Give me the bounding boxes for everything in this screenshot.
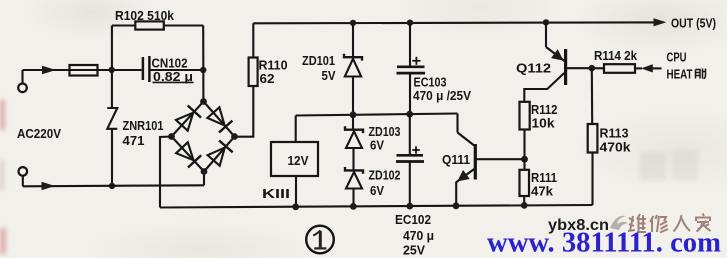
varistor ZNR101 body bbox=[107, 108, 117, 129]
svg-text:EC102: EC102 bbox=[395, 212, 431, 227]
node bridge left bbox=[168, 133, 175, 140]
svg-text:470 μ /25V: 470 μ /25V bbox=[413, 88, 471, 103]
node top rail Q112 bbox=[543, 19, 549, 25]
wire EC103 bottom lead bbox=[409, 73, 411, 114]
wire R112 to node bbox=[523, 130, 525, 160]
underline 0.82u bbox=[153, 81, 194, 83]
relay K111 12V box bbox=[271, 142, 318, 176]
wire EC102 bottom lead bbox=[409, 162, 411, 207]
node junction lower-left bbox=[109, 183, 115, 189]
svg-text:R114 2k: R114 2k bbox=[594, 48, 638, 63]
resistor R111 bbox=[520, 170, 530, 196]
resistor R114 bbox=[604, 64, 635, 73]
bridge edge top-right wire bbox=[204, 102, 235, 137]
wire upper AC line bbox=[23, 69, 142, 71]
wire CN102 right to junction bbox=[151, 69, 204, 71]
svg-text:6V: 6V bbox=[370, 138, 384, 153]
diode D-BL bbox=[176, 142, 193, 160]
capacitor EC102 plates bbox=[397, 154, 424, 157]
wire bottom rail bbox=[160, 205, 593, 208]
OUT arrow bbox=[654, 18, 667, 26]
capacitor EC103 plates bbox=[397, 65, 425, 68]
svg-text:471: 471 bbox=[123, 133, 145, 148]
transistor Q112 base wire bbox=[567, 67, 592, 69]
diode D-TL bbox=[176, 113, 193, 131]
node Q111 emitter on rail bbox=[453, 202, 460, 209]
svg-text:470k: 470k bbox=[600, 140, 632, 155]
transistor Q111 emitter diag bbox=[457, 169, 475, 182]
wire ZD102 bottom lead bbox=[352, 189, 354, 207]
svg-text:62: 62 bbox=[260, 71, 275, 86]
svg-text:AC220V: AC220V bbox=[17, 126, 61, 141]
svg-text:R113: R113 bbox=[600, 126, 629, 141]
node mid rail EC bbox=[406, 111, 413, 118]
bridge edge bottom-left wire bbox=[172, 137, 205, 172]
svg-text:Q112: Q112 bbox=[516, 61, 551, 76]
arrow CPU (points left) bbox=[641, 64, 653, 72]
transistor Q111 collector diag bbox=[458, 133, 475, 146]
fuse F bbox=[70, 65, 98, 76]
svg-text:ZNR101: ZNR101 bbox=[123, 118, 164, 133]
node relay bottom on rail bbox=[292, 203, 299, 210]
wire R102 right riser down to bridge top bbox=[202, 26, 204, 102]
wire lower AC riser to bridge bottom bbox=[203, 172, 205, 186]
wire R102 right lead bbox=[164, 24, 203, 26]
svg-text:470 μ: 470 μ bbox=[403, 228, 434, 243]
ghost bleedthrough blocks bbox=[640, 152, 666, 180]
zener ZD103 bbox=[345, 126, 363, 133]
AC terminal upper bbox=[18, 84, 27, 93]
wire R102 left lead bbox=[112, 24, 135, 26]
wire base node to R114 bbox=[592, 67, 604, 69]
svg-text:6V: 6V bbox=[370, 183, 384, 198]
wire ZD103-ZD102 bbox=[352, 148, 354, 170]
transistor Q111 base wire bbox=[477, 158, 525, 160]
svg-text:R102 510k: R102 510k bbox=[115, 8, 175, 23]
wire EC102 top lead bbox=[409, 114, 411, 155]
transistor Q111 bar bbox=[474, 144, 477, 180]
varistor ZNR101 lead top bbox=[111, 70, 113, 108]
transistor Q112 emitter diag bbox=[546, 47, 565, 61]
node bottom rail EC102 bbox=[406, 203, 413, 210]
capacitor EC103 plus bbox=[412, 60, 420, 62]
node top rail ZD101 bbox=[350, 20, 356, 26]
varistor ZNR101 lead bottom bbox=[111, 129, 113, 186]
transistor Q112 emitter arrow bbox=[551, 49, 564, 60]
circled 1 bbox=[306, 226, 334, 254]
diode D-BR bbox=[208, 148, 225, 166]
watermark weixiurenjia (drawn) bbox=[628, 214, 711, 233]
circled 1 digit bbox=[313, 230, 326, 248]
zener ZD101 bbox=[344, 54, 362, 61]
wire EC103 top lead bbox=[409, 23, 411, 67]
wire node to R111 bbox=[523, 159, 525, 170]
svg-text:OUT (5V): OUT (5V) bbox=[671, 16, 716, 31]
wire R102 loop left riser bbox=[111, 26, 113, 71]
wire lower AC line bbox=[23, 185, 204, 186]
node bridge bottom bbox=[201, 168, 208, 175]
wire Q112 emitter drop bbox=[545, 22, 547, 47]
transistor Q111 emitter arrow bbox=[457, 170, 470, 181]
arrow lower AC bbox=[42, 182, 56, 191]
svg-text:Q111: Q111 bbox=[442, 152, 470, 167]
wire terminal lower to line bbox=[22, 176, 24, 187]
wire after CPU arrow bbox=[653, 67, 662, 69]
wire R114 right bbox=[635, 67, 642, 69]
svg-text:25V: 25V bbox=[403, 243, 425, 258]
node top-rail/R110 corner bbox=[252, 23, 254, 57]
wire mid rail left riser to relay bbox=[295, 116, 297, 143]
svg-text:CPU: CPU bbox=[667, 50, 687, 65]
resistor R113 bbox=[588, 124, 598, 153]
node bridge top bbox=[200, 98, 207, 105]
wire ZD103 top lead bbox=[352, 115, 354, 130]
scan smudge left edge pink 1 bbox=[0, 100, 5, 130]
wire mid rail right corner down bbox=[456, 114, 458, 133]
wire terminal to line bbox=[21, 70, 23, 84]
svg-text:HEAT: HEAT bbox=[667, 67, 693, 82]
wire mid rail bbox=[296, 114, 458, 116]
transistor Q112 collector path bbox=[524, 73, 564, 102]
svg-text:www. 3811111. com: www. 3811111. com bbox=[487, 228, 721, 258]
svg-text:KIII: KIII bbox=[262, 186, 290, 201]
resistor R110 bbox=[249, 58, 258, 87]
bridge edge bottom-right wire bbox=[204, 137, 235, 172]
node junction upper-left bbox=[109, 67, 115, 73]
bridge edge top-left wire bbox=[172, 102, 204, 137]
zener ZD102 bbox=[345, 167, 363, 174]
node bottom rail ZD102 bbox=[350, 203, 357, 210]
resistor R102 bbox=[135, 21, 164, 29]
wire relay bottom lead bbox=[295, 176, 297, 207]
wire ZD101 top lead bbox=[352, 23, 354, 57]
top rail wire bbox=[253, 21, 655, 24]
node R112/R111/base bbox=[521, 156, 528, 163]
diode D-TR bbox=[207, 107, 224, 125]
node top rail EC103 bbox=[407, 20, 413, 26]
node R111 bottom on rail bbox=[521, 202, 528, 209]
wire bottom rail right riser to R113 bbox=[591, 153, 593, 206]
wire R110 bottom to bridge right node bbox=[235, 86, 254, 137]
watermark flourish bbox=[610, 216, 628, 230]
svg-text:10k: 10k bbox=[532, 116, 556, 131]
wire R111 bottom bbox=[523, 196, 525, 205]
wire bridge left node to bottom rail bbox=[160, 137, 172, 208]
node mid rail ZD bbox=[350, 111, 357, 118]
arrow upper AC bbox=[42, 66, 56, 75]
scan smudge left edge pink 2 bbox=[0, 228, 6, 254]
wire Q111 emitter to rail bbox=[455, 182, 457, 206]
resistor R112 bbox=[520, 102, 530, 130]
svg-text:12V: 12V bbox=[288, 153, 309, 168]
capacitor CN102 plates bbox=[142, 57, 145, 80]
wire ZD101 bottom lead bbox=[352, 77, 354, 115]
wire base node down to R113 bbox=[591, 68, 594, 124]
svg-text:ZD101: ZD101 bbox=[302, 53, 335, 68]
AC terminal lower bbox=[19, 167, 28, 176]
transistor Q112 bar bbox=[564, 49, 567, 85]
svg-text:5V: 5V bbox=[322, 68, 336, 83]
scan smudge left edge gray bbox=[0, 160, 4, 190]
capacitor EC102 plus bbox=[412, 149, 420, 151]
svg-text:0.82 μ: 0.82 μ bbox=[153, 69, 193, 84]
svg-text:47k: 47k bbox=[531, 184, 554, 199]
node Q112 base bbox=[589, 65, 596, 72]
node junction CN102 right bbox=[200, 67, 206, 73]
node bridge right bbox=[231, 133, 238, 140]
svg-text:ZD102: ZD102 bbox=[369, 168, 401, 183]
